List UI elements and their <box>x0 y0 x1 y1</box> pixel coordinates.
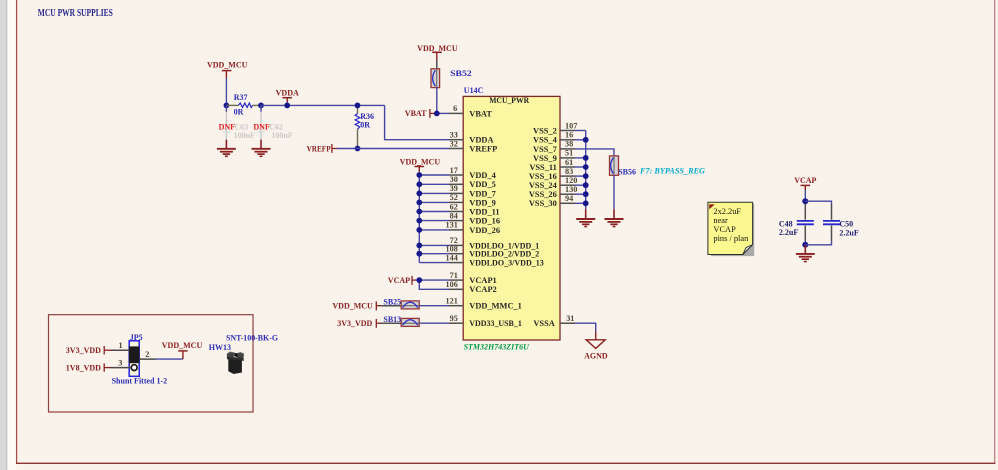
resistor R36 <box>355 105 374 148</box>
svg-text:52: 52 <box>450 193 458 202</box>
svg-text:107: 107 <box>565 121 577 130</box>
wire VBAT to pin 6 <box>434 112 449 114</box>
svg-text:near: near <box>713 216 728 225</box>
node junctions on VSS bus <box>583 137 589 206</box>
IC right pin stubs <box>560 131 575 324</box>
svg-text:VDD_9: VDD_9 <box>469 198 496 207</box>
wire SB25 to pin 121 <box>419 305 449 307</box>
global label 1V8_VDD (JP5) <box>66 363 111 372</box>
IC U14C body <box>463 86 560 351</box>
jumper cap icon HW13 <box>227 352 244 374</box>
svg-text:VDD_MMC_1: VDD_MMC_1 <box>469 302 522 311</box>
power symbol VDDA <box>276 88 299 105</box>
svg-text:38: 38 <box>565 140 573 149</box>
svg-text:100nF: 100nF <box>234 131 255 140</box>
power symbol VDD_MCU (JP5) <box>162 341 203 359</box>
svg-text:F7: BYPASS_REG: F7: BYPASS_REG <box>639 166 706 176</box>
svg-text:AGND: AGND <box>584 351 608 360</box>
capacitor C63 (DNF, greyed) <box>219 105 255 139</box>
svg-text:VSS_24: VSS_24 <box>529 181 558 190</box>
svg-text:VDDLDO_3/VDD_13: VDDLDO_3/VDD_13 <box>469 259 544 268</box>
svg-text:STM32H743ZIT6U: STM32H743ZIT6U <box>464 342 531 351</box>
power symbol VDD_MCU (above SB52) <box>417 44 458 61</box>
svg-text:VDD_MCU: VDD_MCU <box>162 341 203 350</box>
wire SB13 to pin 95 <box>419 322 449 324</box>
svg-text:62: 62 <box>450 202 458 211</box>
svg-text:C48: C48 <box>779 219 793 228</box>
svg-text:2.2uF: 2.2uF <box>839 229 858 238</box>
svg-text:17: 17 <box>450 166 458 175</box>
svg-text:121: 121 <box>446 297 458 306</box>
svg-text:R37: R37 <box>234 93 248 102</box>
svg-text:16: 16 <box>565 131 573 140</box>
svg-text:131: 131 <box>446 221 458 230</box>
svg-text:VDDLDO_2/VDD_2: VDDLDO_2/VDD_2 <box>469 250 539 259</box>
svg-text:SB56: SB56 <box>618 167 636 176</box>
svg-text:39: 39 <box>450 184 458 193</box>
wire rail to VDD pins <box>419 175 449 263</box>
wire R37 to VDDA node <box>261 104 385 106</box>
svg-text:VCAP: VCAP <box>713 225 736 234</box>
wire C50 branch <box>805 201 831 245</box>
wire VSS pins to bus <box>575 131 586 204</box>
global label VDD_MCU (SB25 row) <box>332 301 380 310</box>
svg-text:120: 120 <box>565 176 577 185</box>
IC right pin numbers <box>565 121 577 323</box>
svg-text:6: 6 <box>453 104 457 113</box>
svg-text:VCAP2: VCAP2 <box>469 285 496 294</box>
ground (VCAP) <box>796 245 815 262</box>
ground (under C62) <box>252 140 271 157</box>
resistor R37 <box>226 93 261 117</box>
svg-text:VDD_26: VDD_26 <box>469 226 500 235</box>
wire 1V8_VDD to JP5 pin 3 <box>111 367 131 369</box>
node junction R36 bottom <box>355 146 361 152</box>
wire SB56 to ground <box>613 175 615 209</box>
svg-text:94: 94 <box>565 194 573 203</box>
wire VSS vertical bus <box>585 131 587 210</box>
svg-text:71: 71 <box>450 271 458 280</box>
solder bridge SB13 <box>383 315 419 327</box>
svg-text:Shunt Fitted 1-2: Shunt Fitted 1-2 <box>112 376 168 385</box>
svg-text:2x2.2uF: 2x2.2uF <box>713 207 741 216</box>
svg-text:VSS_9: VSS_9 <box>533 154 557 163</box>
wire VCAP top node <box>804 190 806 204</box>
svg-text:VDD_MCU: VDD_MCU <box>332 302 373 311</box>
svg-text:VCAP: VCAP <box>794 176 816 185</box>
ground (under C63) <box>217 140 236 157</box>
svg-text:VDD_5: VDD_5 <box>469 180 496 189</box>
wire VDD_MCU to SB25 <box>381 305 402 307</box>
svg-text:VBAT: VBAT <box>405 109 427 118</box>
jumper JP5 <box>129 333 143 377</box>
svg-text:VSSA: VSSA <box>533 319 554 328</box>
svg-text:30: 30 <box>450 175 458 184</box>
svg-text:3: 3 <box>118 359 122 368</box>
svg-text:SB13: SB13 <box>383 315 401 324</box>
svg-text:95: 95 <box>450 314 458 323</box>
node junction at R37 right <box>258 103 264 109</box>
solder bridge SB56 <box>610 156 706 177</box>
svg-text:1V8_VDD: 1V8_VDD <box>66 363 101 372</box>
svg-text:VSS_16: VSS_16 <box>529 172 557 181</box>
wire VDDA feed to pin 33 <box>385 105 449 139</box>
wire 3V3_VDD to SB13 <box>381 322 402 324</box>
IC left pin names <box>469 109 544 328</box>
svg-text:33: 33 <box>450 131 458 140</box>
wire VCAP to VCAP1/VCAP2 <box>416 280 449 289</box>
svg-text:2: 2 <box>145 350 149 359</box>
node junction VCAP top <box>802 198 808 204</box>
ground (VSS bus) <box>576 209 595 226</box>
IC left pin stubs <box>449 113 463 323</box>
svg-text:31: 31 <box>566 314 574 323</box>
ground (SB56) <box>605 209 624 226</box>
svg-text:VREFP: VREFP <box>469 144 497 153</box>
svg-text:HW13: HW13 <box>209 343 231 352</box>
ground AGND <box>584 340 608 361</box>
wire SB52 to VBAT node <box>436 87 438 113</box>
global label 3V3_VDD (JP5) <box>66 346 111 355</box>
svg-text:VSS_2: VSS_2 <box>533 126 557 135</box>
IC right pin names (VSS) <box>529 126 558 328</box>
wire 3V3_VDD to JP5 pin 1 <box>111 349 129 351</box>
wire C48 bottom node <box>804 241 806 245</box>
wire VDD_MCU stub down <box>225 78 227 105</box>
capacitor C62 (DNF, greyed) <box>253 105 292 139</box>
note 2x2.2uF <box>708 202 754 256</box>
svg-text:1: 1 <box>119 341 123 350</box>
svg-text:C50: C50 <box>839 219 853 228</box>
IC left pin numbers <box>446 104 458 323</box>
global label VCAP <box>388 276 416 285</box>
wire VSSA to AGND <box>575 323 596 331</box>
node junction at VDDA <box>284 103 290 109</box>
svg-text:VDD_4: VDD_4 <box>469 171 496 180</box>
global label VBAT <box>405 109 434 118</box>
solder bridge SB25 <box>383 297 419 309</box>
svg-text:SB52: SB52 <box>450 69 472 78</box>
node junction VCAP <box>416 277 422 283</box>
svg-text:pins / plan: pins / plan <box>713 234 749 243</box>
wire VDD rail bus <box>418 172 420 263</box>
global label 3V3_VDD (SB13 row) <box>337 319 380 328</box>
svg-text:VREFP: VREFP <box>307 144 331 153</box>
svg-text:0R: 0R <box>234 107 244 116</box>
svg-text:VCAP1: VCAP1 <box>469 276 496 285</box>
svg-text:VDD_11: VDD_11 <box>469 207 499 216</box>
svg-text:VSS_4: VSS_4 <box>533 136 558 145</box>
svg-text:VDD_MCU: VDD_MCU <box>207 61 248 70</box>
node junction R36 top <box>355 103 361 109</box>
svg-text:61: 61 <box>565 158 573 167</box>
solder bridge SB52 <box>431 61 472 88</box>
svg-text:SNT-100-BK-G: SNT-100-BK-G <box>226 334 278 343</box>
svg-text:VDDA: VDDA <box>276 88 299 97</box>
wire VSS_7 to SB56 <box>575 149 614 156</box>
svg-text:MCU_PWR: MCU_PWR <box>489 96 530 105</box>
svg-text:VSS_11: VSS_11 <box>529 163 556 172</box>
capacitor C50 <box>823 204 859 241</box>
svg-text:MCU PWR SUPPLIES: MCU PWR SUPPLIES <box>38 8 113 19</box>
svg-text:51: 51 <box>565 149 573 158</box>
global label VREFP <box>307 144 337 153</box>
node junctions on VDD rail <box>416 172 422 257</box>
JP5 group frame <box>49 315 254 412</box>
power symbol VCAP (right) <box>794 176 816 190</box>
svg-text:0R: 0R <box>360 120 370 129</box>
svg-text:VDD_MCU: VDD_MCU <box>417 44 458 53</box>
svg-text:VDD_MCU: VDD_MCU <box>400 158 441 167</box>
svg-text:3V3_VDD: 3V3_VDD <box>337 319 372 328</box>
svg-text:SB25: SB25 <box>383 297 401 306</box>
svg-text:83: 83 <box>565 167 573 176</box>
svg-text:VBAT: VBAT <box>469 109 492 118</box>
power symbol VDD_MCU (top-left) <box>207 61 248 78</box>
power symbol VDD_MCU (mid rail) <box>400 158 441 172</box>
svg-text:100nF: 100nF <box>271 131 292 140</box>
svg-text:32: 32 <box>450 139 458 148</box>
node junction at R37 left <box>224 103 230 109</box>
svg-text:VSS_30: VSS_30 <box>529 199 557 208</box>
node junction VBAT <box>434 111 440 117</box>
svg-text:VDD_16: VDD_16 <box>469 217 500 226</box>
svg-text:VDD33_USB_1: VDD33_USB_1 <box>469 319 522 328</box>
svg-text:84: 84 <box>450 211 458 220</box>
svg-text:2.2uF: 2.2uF <box>779 228 798 237</box>
svg-text:VDD_7: VDD_7 <box>469 189 496 198</box>
capacitor C48 <box>779 204 814 241</box>
svg-text:144: 144 <box>446 253 458 262</box>
svg-text:106: 106 <box>446 280 458 289</box>
svg-text:VDDA: VDDA <box>469 136 493 145</box>
svg-text:VSS_26: VSS_26 <box>529 190 557 199</box>
svg-text:130: 130 <box>565 185 577 194</box>
svg-text:DNF: DNF <box>253 122 270 131</box>
node junction VCAP bottom <box>802 242 808 248</box>
wire VREFP to pin 32 <box>337 148 449 150</box>
svg-text:3V3_VDD: 3V3_VDD <box>66 346 101 355</box>
svg-text:U14C: U14C <box>464 86 484 95</box>
wire JP5 pin 2 <box>139 358 156 360</box>
svg-text:VCAP: VCAP <box>388 276 410 285</box>
svg-text:VSS_7: VSS_7 <box>533 145 557 154</box>
